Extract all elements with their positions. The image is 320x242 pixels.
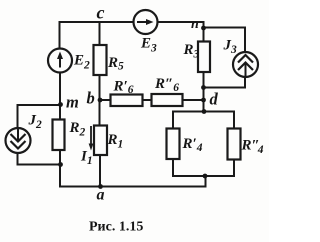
wire J3 bottom down and left to junction on R3 column	[203, 77, 246, 88]
current source J2 double chevron (down)	[11, 129, 26, 149]
current source J3 double chevron (up)	[238, 55, 253, 76]
wire R4 box bottom rail	[173, 159, 234, 176]
wire E2 bottom to node m	[59, 73, 61, 106]
svg-text:R1: R1	[107, 132, 124, 151]
svg-text:m: m	[66, 93, 79, 112]
wire R3 bottom through junction and node d to box top	[203, 72, 205, 112]
wire R5 bottom through node b to R1 top	[99, 75, 101, 126]
junction J2-R2	[58, 162, 63, 167]
wire between R'6 and R''6	[143, 99, 152, 101]
source E2 arrow (up)	[57, 52, 63, 68]
svg-text:c: c	[97, 3, 105, 23]
node m	[58, 102, 63, 107]
svg-text:Рис. 1.15: Рис. 1.15	[89, 220, 143, 235]
resistor R2	[53, 120, 65, 151]
wire c branch down to R5	[99, 22, 101, 45]
source E2 circle	[48, 49, 72, 73]
resistor R''4	[228, 129, 241, 160]
wire R1 bottom to node a	[99, 155, 101, 187]
wire R2 branch m to R2 top	[59, 105, 61, 120]
node a	[98, 184, 103, 189]
wire R4 box top rail	[173, 112, 234, 129]
svg-text:R2: R2	[69, 120, 86, 139]
resistor R''6	[152, 94, 183, 106]
svg-text:J2: J2	[28, 113, 43, 132]
wire R''6 to node d	[183, 99, 204, 101]
svg-text:R″4: R″4	[241, 138, 264, 157]
wire top rail left (E2 top to c to E3)	[60, 22, 134, 49]
resistor R'4	[167, 129, 180, 160]
resistor R'6	[111, 95, 143, 107]
svg-text:I1: I1	[80, 149, 93, 168]
svg-text:R′6: R′6	[113, 79, 134, 97]
wire bottom rail from R2 column through node a to right stub	[59, 176, 206, 187]
resistor R5	[94, 45, 107, 75]
current source J3 circle	[233, 52, 258, 77]
junction J3-R3	[201, 85, 206, 90]
current source J2 circle	[6, 128, 31, 153]
current arrow I1 (down, beside R1)	[89, 126, 94, 151]
node d	[201, 98, 206, 103]
svg-text:d: d	[210, 90, 219, 109]
wire R2 bottom through junction down to bottom rail	[59, 150, 61, 187]
source E3 circle	[134, 10, 158, 34]
wire n rail to top-right corner and down to J3	[203, 28, 246, 53]
wire J2 bottom down and right to junction under R2	[18, 153, 61, 165]
svg-text:b: b	[87, 89, 95, 108]
wire m rail left to J2 column	[18, 105, 61, 129]
node n	[201, 26, 206, 31]
svg-text:J3: J3	[223, 38, 238, 57]
wire R3 column: n to R3 top	[203, 27, 205, 42]
svg-text:R5: R5	[107, 55, 124, 73]
source E3 arrow (right)	[137, 19, 154, 25]
junction box bottom	[203, 174, 208, 179]
svg-text:n: n	[191, 17, 199, 32]
svg-text:R′4: R′4	[182, 136, 203, 154]
svg-text:E3: E3	[140, 36, 157, 55]
junction box top	[202, 109, 207, 114]
svg-text:a: a	[97, 187, 105, 204]
svg-text:E2: E2	[73, 53, 90, 72]
svg-text:R″6: R″6	[154, 76, 179, 94]
node b	[98, 98, 103, 103]
wire E3 right to corner above n	[158, 22, 204, 28]
resistor R3	[198, 42, 210, 73]
resistor R1	[94, 126, 107, 156]
wire mid rail b to R'6	[100, 99, 111, 101]
